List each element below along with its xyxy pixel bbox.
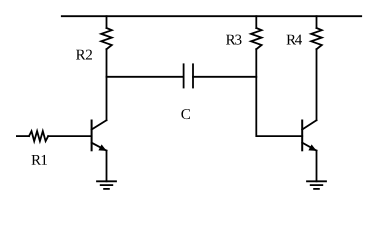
transistor Q1 emitter arrowhead	[98, 144, 106, 151]
resistor R4	[311, 28, 322, 49]
resistor R3	[251, 28, 262, 49]
wire Q2 emitter to ground	[316, 151, 318, 182]
transistor Q1 collector diagonal	[92, 120, 107, 129]
wire R4 top stub	[316, 16, 318, 28]
wire R1 to Q1 base	[48, 135, 91, 137]
transistor Q1 base bar	[91, 121, 93, 151]
resistor R1	[29, 131, 48, 141]
resistor R2	[101, 28, 112, 49]
power rail (top horizontal wire)	[62, 15, 361, 17]
transistor Q2 emitter arrowhead	[308, 144, 316, 151]
wire R2 top stub	[106, 16, 108, 28]
transistor Q1 emitter diagonal	[92, 143, 107, 151]
label R4	[287, 35, 303, 45]
wire Q1 emitter to ground	[106, 151, 108, 182]
wire R2 bottom to Q1 collector node	[106, 49, 108, 120]
transistor Q2 base bar	[301, 121, 303, 151]
label R2	[76, 50, 92, 60]
label R1	[32, 155, 48, 165]
label C	[181, 109, 190, 119]
capacitor C	[183, 64, 185, 87]
wire R3 top stub	[255, 16, 257, 28]
transistor Q2 collector diagonal	[302, 120, 316, 129]
label R3	[226, 35, 242, 45]
wire R4 bottom to Q2 collector	[316, 49, 318, 120]
wire capacitor left lead	[107, 76, 184, 78]
transistor Q2 emitter diagonal	[302, 143, 316, 151]
ground (Q2 emitter)	[307, 180, 326, 182]
wire input lead	[17, 135, 29, 137]
wire capacitor right lead	[193, 76, 256, 78]
wire R3 bottom down to Q2 base corner	[256, 49, 302, 136]
ground (Q1 emitter)	[97, 180, 116, 182]
